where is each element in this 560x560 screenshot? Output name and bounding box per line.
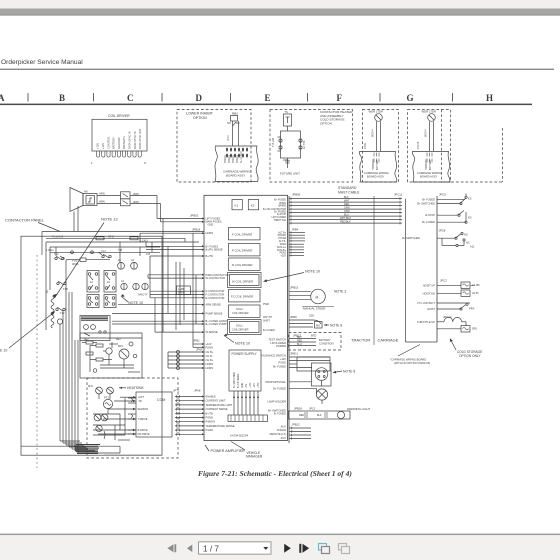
svg-text:TS: TS (285, 110, 289, 114)
svg-text:RB2: RB2 (232, 112, 238, 116)
carriage bus vertical (405, 199, 407, 342)
panel lower block with hatch (80, 316, 110, 341)
label NOTE 10 (left margin) with arrow (0, 312, 55, 353)
svg-text:CARRIAGE WIRING: CARRIAGE WIRING (364, 171, 389, 175)
svg-text:B+/TD: B+/TD (206, 411, 214, 415)
svg-text:DATA SYNC OUT: DATA SYNC OUT (138, 128, 142, 149)
svg-text:E 10: E 10 (0, 349, 7, 353)
svg-text:ES: ES (468, 216, 472, 220)
svg-text:*CARRIAGE WIRING BOARD: *CARRIAGE WIRING BOARD (390, 358, 426, 362)
svg-text:1 CA13: 1 CA13 (140, 240, 148, 243)
svg-text:NO: NO (464, 233, 468, 237)
svg-text:K2: K2 (251, 204, 255, 208)
svg-text:H: H (486, 93, 493, 103)
svg-text:BATTERY -: BATTERY - (112, 136, 116, 149)
svg-text:+15V: +15V (258, 382, 260, 388)
svg-text:LTD1: LTD1 (227, 135, 230, 141)
coil A6 (142, 283, 148, 289)
wire horn relays to JPB02 (130, 196, 161, 222)
svg-text:T1 J1 CH6: T1 J1 CH6 (52, 237, 64, 239)
svg-text:BATTERY+: BATTERY+ (122, 135, 126, 149)
module F COIL DRIVER (229, 228, 261, 240)
svg-text:+12V: +12V (250, 382, 252, 388)
wire JPB02 row LIFT FUSES (157, 218, 202, 220)
svg-text:-TD: -TD (138, 400, 142, 403)
svg-text:JPA8: JPA8 (194, 389, 201, 393)
toolbar: new-window icon (319, 544, 330, 554)
grid letter row (0, 93, 493, 103)
svg-text:MJ2: MJ2 (88, 384, 93, 388)
svg-text:SPARE: SPARE (236, 155, 239, 163)
svg-text:HN: HN (84, 191, 88, 194)
svg-text:MS: MS (316, 324, 320, 328)
svg-text:RED: RED (299, 414, 304, 417)
svg-text:B+ SWITCHED: B+ SWITCHED (417, 202, 435, 206)
transistor Q1 (106, 348, 112, 354)
svg-text:MPL: MPL (118, 344, 124, 348)
svg-text:JPB05: JPB05 (292, 193, 301, 197)
svg-text:JPB12: JPB12 (292, 423, 301, 427)
wire row PGND bottom (193, 346, 202, 348)
svg-text:LAMP HOLDER: LAMP HOLDER (267, 399, 286, 403)
svg-text:CR12: CR12 (108, 237, 115, 239)
switch RB2 (lower limit switch) (227, 112, 240, 147)
svg-text:Orderpicker Service Manual: Orderpicker Service Manual (1, 59, 83, 66)
svg-text:PGND: PGND (206, 416, 214, 420)
svg-text:KS: KS (468, 197, 472, 201)
svg-text:JPC15: JPC15 (417, 141, 420, 149)
svg-text:2A: 2A (107, 281, 110, 284)
svg-text:TRACTOR: TRACTOR (351, 338, 370, 343)
svg-text:MANUAL STEER: MANUAL STEER (303, 307, 325, 311)
contactor T1B (57, 281, 68, 291)
connector JPA (power supply bottom bar) (228, 415, 268, 421)
svg-text:CONTACTOR PANEL: CONTACTOR PANEL (5, 218, 45, 223)
warning light assembly (289, 407, 371, 420)
svg-text:M: M (316, 296, 319, 300)
coil stack side notes (263, 303, 275, 332)
motor M1 (panel) (57, 319, 62, 330)
svg-text:TORSION: TORSION (373, 159, 375, 170)
coil A4 (121, 280, 127, 290)
svg-text:PT1: PT1 (104, 396, 109, 400)
svg-text:STANDARD: STANDARD (338, 186, 357, 190)
thermal sensor PT1 (103, 396, 112, 415)
bottom toolbar border (0, 534, 560, 536)
svg-text:FC COIL DRIVER: FC COIL DRIVER (231, 295, 253, 299)
lamp WDR/LTDR option 3 (364, 110, 383, 152)
svg-text:A4/CTY: A4/CTY (138, 293, 148, 297)
svg-text:A1 THS: A1 THS (303, 140, 306, 149)
svg-text:ENABLE: ENABLE (206, 395, 217, 399)
wire horn to panel (74, 206, 78, 232)
throttle coils (JPC10) (417, 315, 477, 332)
label STANDARD MAST CABLE (338, 186, 360, 195)
svg-text:NC: NC (466, 241, 470, 245)
svg-text:FUTURE UNIT: FUTURE UNIT (280, 172, 300, 176)
sensor group S20 (289, 314, 322, 329)
svg-text:R COIL DRIVER: R COIL DRIVER (232, 263, 253, 267)
svg-text:RE2: RE2 (84, 339, 89, 341)
svg-text:PGND: PGND (206, 428, 214, 432)
svg-text:AUX: AUX (281, 424, 287, 428)
svg-text:NOTE 3: NOTE 3 (334, 290, 346, 294)
svg-text:LR 50: LR 50 (472, 292, 479, 295)
svg-text:COM: COM (157, 398, 165, 402)
svg-text:T12: T12 (60, 311, 65, 315)
svg-text:D: D (196, 93, 203, 103)
svg-text:BLK: BLK (317, 414, 322, 417)
svg-text:W COIL DRIVER: W COIL DRIVER (232, 280, 253, 284)
svg-text:B+ FUSED: B+ FUSED (422, 197, 435, 201)
svg-text:WDR 4: WDR 4 (425, 129, 428, 137)
option box 5 (dashed, empty) (442, 110, 503, 183)
bottom toolbar bar (0, 535, 560, 560)
COM module (93, 392, 172, 437)
svg-text:300A: 300A (72, 262, 79, 266)
svg-text:JPC9: JPC9 (439, 193, 446, 197)
svg-text:OPTION: OPTION (320, 121, 332, 125)
toolbar: prev-page button (disabled) (187, 545, 192, 553)
svg-text:Figure 7-21: Schematic - Elec: Figure 7-21: Schematic - Electrical (She… (198, 469, 352, 478)
label CONTACTOR HEATER ASSY COLD STORAGE OPTION (320, 110, 353, 125)
svg-text:JPC10: JPC10 (443, 315, 452, 319)
svg-text:GND: GND (208, 223, 214, 227)
resistor ladder right of heatsink (128, 398, 136, 434)
svg-text:+5V: +5V (246, 383, 248, 388)
svg-text:B+ FUSED: B+ FUSED (273, 364, 286, 368)
heatsink transistor Q3 (88, 384, 102, 399)
lamp WDR/LTDR option 4 (417, 110, 436, 152)
svg-text:E: E (265, 93, 271, 103)
module W COIL DRIVER (double border) (228, 273, 262, 288)
contactor T12 lower (56, 307, 65, 315)
svg-text:1A: 1A (90, 281, 93, 284)
power supply module (229, 350, 261, 391)
driver circuit block (above power amp) (80, 333, 142, 378)
svg-text:DATA SYNC IN: DATA SYNC IN (133, 131, 137, 149)
label NOTE 8 (horn option) with arrow (333, 370, 355, 374)
svg-text:G: G (407, 93, 414, 103)
label HEATSINK with arrow (119, 386, 144, 390)
svg-text:JPB15: JPB15 (290, 286, 299, 290)
pins into COM (133, 396, 136, 435)
svg-text:+LIFT: +LIFT (138, 396, 145, 399)
solenoid pair LX/LR (JPC2) (423, 279, 481, 297)
toolbar: next-page button (284, 544, 291, 553)
svg-text:HRN: HRN (99, 192, 105, 196)
connector JPB12 stubs (289, 423, 311, 440)
VM internal left labels (wire names) (206, 216, 229, 370)
svg-text:RE3: RE3 (116, 339, 121, 341)
svg-text:CURRENT SENSE: CURRENT SENSE (206, 407, 228, 411)
svg-text:JPB9: JPB9 (290, 315, 297, 319)
svg-text:CH B+: CH B+ (206, 358, 214, 362)
svg-text:B+/TD: B+/TD (206, 254, 214, 258)
svg-text:TEMPERATURE LIMIT: TEMPERATURE LIMIT (206, 403, 233, 407)
svg-text:JPC11: JPC11 (394, 193, 403, 197)
svg-text:A: A (0, 93, 5, 103)
module R COIL DRIVER (229, 258, 261, 270)
coil A2 (131, 259, 138, 269)
svg-text:HEATSINK: HEATSINK (127, 386, 144, 390)
wire row B+/PU SENSE (146, 249, 202, 251)
label NOTE 10 (to W coil driver) with arrow (264, 270, 320, 283)
svg-text:T1S 185: T1S 185 (272, 137, 275, 147)
svg-text:BOARD ASSY: BOARD ASSY (226, 174, 245, 178)
svg-text:B+/PU SENSE: B+/PU SENSE (206, 248, 223, 252)
wire row W-SENSE (155, 331, 202, 333)
svg-text:BLU: BLU (297, 343, 302, 346)
svg-text:0-6794-5527/04: 0-6794-5527/04 (230, 434, 249, 438)
e-stop switch ES (422, 211, 471, 225)
toolbar: page number input box (199, 542, 272, 554)
panel top bus rows with inline fuses (46, 237, 185, 263)
svg-text:GROUND: GROUND (117, 137, 121, 149)
label NOTE 10 (to SOL1) with arrow (224, 333, 250, 345)
svg-text:NOTE 8: NOTE 8 (330, 324, 342, 328)
svg-text:SENSOR: SENSOR (138, 408, 149, 411)
coil A1 (118, 259, 125, 269)
svg-text:JPT1: JPT1 (173, 389, 180, 393)
svg-text:REMOTE (LT): REMOTE (LT) (270, 432, 287, 436)
horn option box NOTE 8 (312, 363, 332, 386)
svg-text:OPTION ONLY: OPTION ONLY (459, 354, 481, 358)
wire row B+ FUSED PUMP (112, 323, 202, 325)
svg-text:1 / 7: 1 / 7 (203, 544, 219, 553)
svg-text:P COIL DRIVER: P COIL DRIVER (232, 249, 252, 253)
arrowheads at VM edge (202, 218, 205, 349)
window gray title bar (0, 9, 560, 16)
label NOTE 8 (sensor) (324, 324, 342, 328)
svg-text:AUX: AUX (281, 436, 287, 440)
toolbar: duplicate-window icon (disabled) (339, 544, 350, 554)
connector JPB05 spine (VM right edge) (288, 196, 290, 443)
wire row PWR-CONTACTOR (148, 274, 202, 276)
svg-text:JPA6: JPA6 (196, 348, 203, 352)
resistor R10 (96, 344, 103, 347)
label POWER AMPLIFIER with leader (205, 445, 245, 453)
svg-text:NOTE 10: NOTE 10 (235, 342, 250, 346)
svg-text:NOTE 12: NOTE 12 (101, 217, 118, 222)
svg-text:CH B-: CH B- (206, 354, 213, 358)
svg-text:SRS: SRS (472, 328, 477, 331)
connector JPB4 stubs (289, 228, 305, 257)
svg-text:BATTERY: BATTERY (376, 159, 379, 170)
svg-text:B+ FUSED: B+ FUSED (263, 329, 275, 332)
svg-text:JPB18: JPB18 (192, 228, 201, 232)
svg-text:CARRIAGE WIRING: CARRIAGE WIRING (417, 171, 442, 175)
label VEHICLE MANAGER with leader (231, 442, 263, 459)
svg-text:JP34: JP34 (283, 159, 289, 162)
heatsink transistor Q4 (107, 387, 114, 399)
module P COIL DRIVER (229, 244, 261, 256)
svg-text:JPC2: JPC2 (440, 279, 447, 283)
VM internal right labels (lower) (261, 337, 286, 440)
svg-text:TEST SWITCH: TEST SWITCH (268, 337, 286, 341)
svg-text:T1B: T1B (63, 287, 68, 291)
svg-text:BOARD ASSY: BOARD ASSY (420, 175, 438, 179)
carriage wiring board assy (torn-edge, option 3) (359, 152, 397, 183)
switch A11 (JPC8) (402, 229, 475, 249)
svg-text:B- FUSED: B- FUSED (274, 411, 286, 415)
svg-text:WDR LTDR: WDR LTDR (369, 110, 384, 114)
wire row +12V bottom (193, 343, 202, 345)
svg-text:MANAGER: MANAGER (246, 454, 263, 458)
connector JPT1 / JPA8 rows (173, 389, 205, 436)
svg-text:DATA SYNC IN: DATA SYNC IN (128, 131, 132, 149)
svg-text:HORN: HORN (206, 231, 214, 235)
label carriage wiring board note (390, 345, 430, 366)
svg-text:SPARE: SPARE (232, 155, 235, 163)
svg-text:HOIST UP: HOIST UP (423, 283, 435, 287)
window top strip (0, 0, 560, 9)
label COLD STORAGE OPTION ONLY with arrow (450, 339, 482, 359)
svg-text:JPB1: JPB1 (193, 339, 200, 343)
svg-text:R-CONTACTOR: R-CONTACTOR (206, 296, 225, 300)
svg-text:TEMPERATURE SENSE: TEMPERATURE SENSE (206, 424, 235, 428)
svg-text:A11: A11 (470, 245, 475, 249)
svg-text:PWM: PWM (263, 303, 269, 306)
contactor panel enclosure (21, 232, 204, 469)
svg-text:ARM SENSE: ARM SENSE (206, 303, 222, 307)
relay block 1A (87, 271, 99, 293)
svg-text:PWM IN: PWM IN (206, 420, 216, 424)
coil driver pin loops (97, 151, 142, 157)
svg-text:POWER: POWER (276, 344, 286, 348)
motor M (manual steer) (289, 286, 334, 311)
wire row PUMP SENSE (112, 312, 202, 314)
resistor R-B+ (vertical squiggle) (45, 289, 54, 328)
transistor Q2 (119, 349, 129, 359)
key switch KS (417, 194, 472, 206)
svg-text:SPARE: SPARE (228, 155, 231, 163)
svg-text:HORN: HORN (206, 366, 214, 370)
svg-text:JP13: JP13 (309, 407, 316, 411)
svg-text:T12: T12 (54, 252, 59, 256)
svg-text:B+ FILTERED: B+ FILTERED (238, 373, 240, 388)
svg-text:COIL DRIVER: COIL DRIVER (232, 311, 249, 315)
schematic top border line (0, 104, 532, 106)
svg-text:TORSION: TORSION (426, 159, 428, 170)
grid ticks (28, 93, 453, 102)
svg-text:TR2: TR2 (101, 250, 106, 254)
power supply pin wires (233, 391, 259, 415)
wire row W-CONTACTOR (148, 277, 202, 279)
svg-text:BATTERY: BATTERY (319, 338, 331, 342)
svg-text:-12V: -12V (254, 383, 256, 388)
thermostat TS1 (284, 110, 292, 126)
svg-text:HOIST DN: HOIST DN (423, 291, 435, 295)
svg-text:HORN: HORN (206, 362, 214, 366)
svg-text:C: C (127, 93, 134, 103)
svg-text:B: B (59, 93, 65, 103)
svg-text:CONTROL: CONTROL (106, 136, 110, 149)
svg-text:+12V: +12V (96, 143, 100, 149)
module FC COIL DRIVER (229, 290, 261, 302)
svg-text:THROTTLE UP: THROTTLE UP (417, 320, 435, 324)
bus convergence hatch (74, 445, 100, 454)
svg-text:W-CONTACTOR: W-CONTACTOR (206, 276, 226, 280)
svg-text:T-DRIVE: T-DRIVE (138, 418, 148, 421)
svg-text:B+ FUSED PUMP: B+ FUSED PUMP (206, 322, 227, 326)
wire row F-CONTACTOR (150, 294, 202, 296)
relay K2 (248, 200, 258, 210)
svg-text:JPC8: JPC8 (439, 229, 446, 233)
tractor/carriage divider (373, 196, 375, 345)
svg-text:OPTION: OPTION (193, 116, 207, 120)
svg-text:GUIDANCE SWITCH: GUIDANCE SWITCH (261, 354, 286, 358)
svg-text:POWER SUPPLY: POWER SUPPLY (232, 352, 258, 356)
wire row B+ FUSES (146, 245, 202, 247)
carriage wiring board assy (torn-edge, option 4) (412, 152, 450, 183)
svg-text:E-STOP: E-STOP (425, 213, 435, 217)
svg-text:DR-DRIVE: DR-DRIVE (138, 433, 150, 436)
svg-text:COIL DRIVER: COIL DRIVER (232, 327, 249, 331)
label NOTE 12 with arrow (53, 217, 119, 299)
vehicle manager U1 (main enclosure) (204, 195, 288, 440)
pressure switch PRS (417, 301, 474, 311)
input dropdown arrow (263, 547, 268, 550)
svg-text:FTL CONTACT: FTL CONTACT (417, 301, 435, 305)
coil driver module U10 (91, 114, 147, 165)
svg-text:MAST CABLE: MAST CABLE (338, 191, 360, 195)
svg-text:BATTERY: BATTERY (429, 159, 432, 170)
svg-text:NC: NC (236, 121, 240, 125)
carriage wiring board assy (torn-edge shape, option 1) (215, 146, 258, 182)
svg-text:F COIL DRIVER: F COIL DRIVER (232, 233, 252, 237)
wire horn to relays (97, 192, 121, 204)
lamp L1 (proportional) (289, 382, 328, 404)
guidance loop JPB11 (289, 352, 330, 372)
output devices rows (93, 398, 130, 440)
svg-text:+12V: +12V (280, 254, 286, 257)
svg-text:WDR LTDR: WDR LTDR (422, 110, 437, 114)
svg-text:1A8: 1A8 (146, 253, 151, 256)
svg-text:B+ SWITCHED: B+ SWITCHED (402, 236, 420, 240)
wire harness JPB05 to JPC11 (8 rows) (289, 196, 402, 225)
svg-text:NOTE 10: NOTE 10 (305, 270, 320, 274)
connector ticks (177, 395, 180, 436)
vertical feeder wires (center) (176, 262, 184, 330)
svg-text:SPARE: SPARE (224, 155, 227, 163)
svg-text:POWER AMPLIFIER: POWER AMPLIFIER (211, 449, 246, 453)
svg-text:B+ FUSED: B+ FUSED (274, 199, 286, 202)
svg-text:JPB4: JPB4 (292, 228, 299, 232)
coil A5 (133, 283, 139, 289)
toolbar: first-page button (disabled) (167, 544, 176, 552)
module SOL2 COIL DRIVER (229, 305, 261, 317)
svg-text:B+ FUSED: B+ FUSED (273, 386, 286, 390)
option box: mast cable option 3 (dashed) (363, 110, 399, 183)
svg-text:PUMP SENSE: PUMP SENSE (206, 311, 223, 315)
svg-text:BTD: BTD (311, 334, 316, 338)
svg-text:DRVR: DRVR (178, 291, 185, 294)
svg-text:B+ FUSED: B+ FUSED (240, 151, 243, 163)
contactor TR2 (101, 250, 111, 259)
svg-text:CH B+: CH B+ (206, 350, 214, 354)
svg-text:THROTTLE: THROTTLE (273, 219, 286, 222)
VM internal right labels (JPB05 pins) (263, 199, 286, 222)
label NOTE 10 (panel) with arrow (121, 294, 143, 305)
svg-text:COIL DRIVER: COIL DRIVER (108, 114, 130, 118)
svg-text:GND: GND (242, 383, 244, 388)
svg-text:B+ FUSED: B+ FUSED (422, 220, 435, 224)
relay block 2B (104, 295, 116, 308)
wire carriage bottom return (406, 341, 438, 343)
svg-text:BOARD ASSY: BOARD ASSY (367, 175, 385, 179)
vertical feeder wires (145, 242, 147, 246)
